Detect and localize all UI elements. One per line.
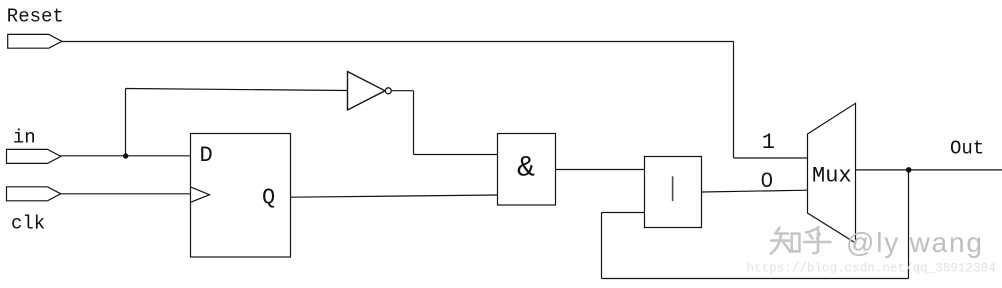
inverter U2 triangle	[348, 72, 386, 111]
wire Mux output to Out	[856, 169, 1002, 171]
input port in	[7, 149, 61, 163]
svg-text:Out: Out	[950, 138, 984, 160]
svg-text:1: 1	[762, 130, 775, 155]
input port clk	[7, 187, 61, 201]
wire in to D input	[61, 155, 191, 157]
OR gate U4 body	[645, 157, 702, 228]
svg-text:Reset: Reset	[7, 5, 64, 27]
wire AND output to OR gate	[556, 169, 645, 171]
wire feedback up	[601, 213, 603, 279]
svg-text:in: in	[13, 126, 36, 148]
inverter U2 bubble	[385, 88, 391, 94]
wire Q to AND gate	[291, 195, 498, 197]
D flip-flop U1 body	[191, 134, 291, 258]
multiplexer U5 body	[808, 103, 856, 243]
svg-text:Q: Q	[262, 185, 275, 210]
wire Reset vertical drop	[733, 42, 735, 159]
wire inverter output to AND gate	[414, 154, 498, 156]
clock triangle on flip-flop	[191, 187, 210, 202]
input port Reset	[8, 34, 62, 48]
wire feedback down from output	[908, 170, 910, 279]
svg-text:&: &	[517, 152, 535, 186]
svg-text:0: 0	[761, 168, 773, 192]
wire to inverter input	[126, 89, 348, 91]
wire inverter output right	[391, 90, 413, 92]
wire Reset to Mux input 1	[734, 157, 808, 159]
wire feedback bottom	[602, 278, 909, 280]
wire clk to flip-flop clock	[61, 193, 191, 195]
svg-text:@ly wang: @ly wang	[846, 227, 984, 258]
wire junction up	[125, 89, 127, 157]
junction node on output wire	[906, 167, 912, 173]
svg-text:https://blog.csdn.net/qq_38912: https://blog.csdn.net/qq_38912304	[747, 262, 996, 276]
junction node on in wire	[123, 153, 128, 158]
svg-text:Mux: Mux	[812, 164, 852, 189]
wire feedback into OR gate	[602, 212, 645, 214]
wire Reset horizontal	[62, 41, 734, 43]
wire OR output to Mux input 0	[702, 190, 808, 192]
AND gate U3 body	[498, 134, 556, 206]
svg-text:clk: clk	[11, 212, 45, 234]
label | (OR gate symbol)	[672, 176, 674, 201]
wire inverter output down	[413, 91, 415, 155]
svg-text:D: D	[200, 143, 213, 168]
watermark zhihu logo text 知乎	[771, 227, 831, 254]
